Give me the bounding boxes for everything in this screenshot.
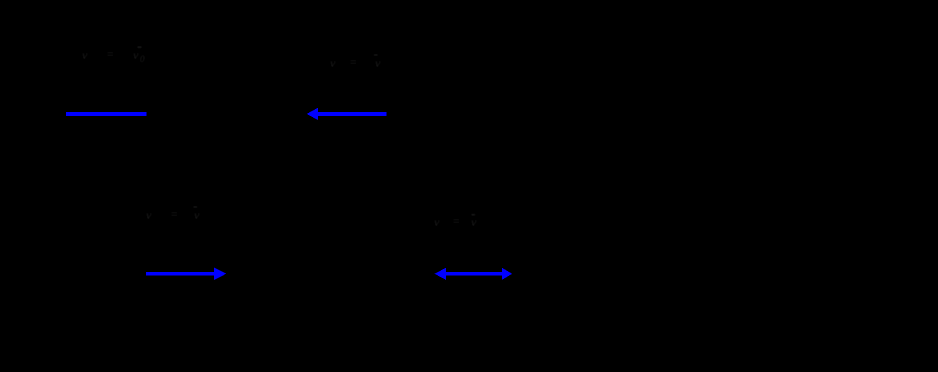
- svg-text:v: v: [194, 208, 200, 222]
- svg-text:v: v: [434, 215, 440, 229]
- svg-text:=: =: [106, 47, 114, 61]
- arrow 1: zero-velocity bar (blue, no head): [66, 112, 147, 116]
- label: v double (bottom-middle, faint): [434, 214, 477, 229]
- svg-text:0: 0: [140, 54, 145, 64]
- svg-text:v: v: [82, 48, 88, 62]
- label: v right (bottom-left, faint): [146, 206, 200, 222]
- svg-text:=: =: [170, 207, 178, 221]
- arrow 3: right-pointing arrow (blue): [146, 268, 227, 281]
- svg-text:v: v: [330, 56, 336, 70]
- svg-text:v: v: [471, 215, 477, 229]
- svg-text:v: v: [133, 48, 139, 62]
- arrow 4: double-headed arrow (blue): [435, 268, 512, 280]
- label: v = v0 (top-left, faint): [82, 47, 145, 65]
- svg-text:v: v: [375, 56, 381, 70]
- label: v left (top-middle, faint): [330, 54, 381, 70]
- svg-text:v: v: [146, 208, 152, 222]
- arrow 2: left-pointing arrow (blue): [307, 108, 387, 120]
- svg-text:=: =: [452, 214, 460, 228]
- svg-text:=: =: [349, 55, 357, 69]
